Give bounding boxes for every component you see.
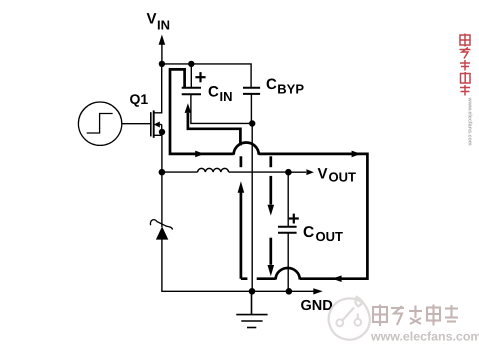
Q1 body arrowhead	[154, 122, 160, 128]
svg-text:V: V	[147, 11, 157, 28]
wire zener to ground rail	[162, 239, 314, 291]
D1 cathode squiggle	[150, 220, 172, 230]
current loop up arrowhead into CIN	[185, 103, 192, 113]
node ground tap	[249, 288, 256, 295]
wire COUT bottom lead	[287, 233, 289, 292]
svg-text:GND: GND	[301, 298, 333, 314]
current loop thick path (CIN branch, left side)	[170, 69, 234, 153]
inductor L1	[198, 168, 229, 172]
svg-text:C: C	[303, 224, 314, 241]
pulse source V1	[78, 102, 121, 145]
label CBYP	[266, 76, 304, 97]
wire top rail to CBYP	[162, 64, 251, 88]
wire drain rail	[154, 64, 162, 113]
node SW	[159, 169, 166, 176]
current loop left arrowhead bottom	[332, 275, 341, 282]
node CIN top	[188, 61, 194, 67]
watermark logo circle	[329, 297, 370, 340]
watermark chinese glyphs bottom	[373, 305, 458, 327]
label VIN	[147, 11, 171, 33]
svg-text:V: V	[318, 166, 328, 183]
COUT plus sign	[289, 214, 299, 224]
current loop hump over cap ground wire	[234, 143, 259, 155]
node VIN rail	[159, 61, 165, 67]
CIN plus sign	[195, 72, 205, 82]
ground symbol	[236, 291, 267, 327]
node COUT ground	[286, 288, 293, 295]
current loop right arrowhead 1	[195, 151, 204, 158]
wire VOUT stub	[288, 171, 306, 173]
wire COUT top lead	[287, 172, 289, 227]
current loop riser stub above VOUT line	[240, 156, 243, 167]
node caps ground junction	[249, 120, 255, 126]
current arrow down arrowhead 2	[268, 265, 275, 276]
label VOUT	[318, 166, 357, 185]
current loop thick path (top right, right side)	[259, 154, 368, 279]
wire SW to zener	[161, 172, 163, 227]
svg-text:www.elecfans.com: www.elecfans.com	[467, 97, 473, 146]
current loop hump over COUT wire	[276, 268, 300, 280]
transistor Q1	[151, 110, 162, 137]
wire caps to ground	[251, 124, 253, 292]
svg-text:www.elecfans.com: www.elecfans.com	[370, 330, 479, 344]
GND arrowhead	[313, 288, 322, 294]
svg-text:C: C	[266, 76, 277, 93]
capacitor CIN	[182, 88, 201, 95]
node VOUT	[285, 169, 292, 176]
node Q1 source	[159, 129, 165, 135]
wire VIN stem	[161, 44, 163, 64]
label CIN	[208, 84, 233, 105]
svg-text:C: C	[208, 84, 219, 101]
svg-text:Q1: Q1	[130, 91, 149, 107]
wire gate	[122, 123, 151, 125]
current arrow down arrowhead 1	[268, 205, 275, 216]
svg-text:OUT: OUT	[316, 229, 344, 244]
current arrow down segment 1	[269, 176, 272, 205]
current loop bottom segments with break	[241, 277, 276, 280]
VIN arrowhead	[159, 35, 166, 45]
svg-text:IN: IN	[157, 18, 170, 33]
diode D1 (zener)	[156, 226, 168, 239]
current loop riser upper segment to CIN	[188, 113, 241, 146]
wire SW line to inductor	[162, 171, 198, 173]
wire inductor to VOUT node	[229, 171, 289, 173]
svg-text:IN: IN	[220, 89, 233, 104]
label COUT	[303, 224, 343, 244]
wire rail Q1 source to SW node	[161, 132, 163, 172]
current loop right arrowhead 2	[352, 151, 361, 158]
capacitor COUT	[278, 227, 297, 233]
svg-text:OUT: OUT	[329, 170, 357, 185]
current loop up arrowhead	[238, 181, 245, 193]
VOUT arrowhead	[306, 169, 314, 175]
wire CIN top lead	[190, 64, 192, 88]
capacitor CBYP	[243, 88, 260, 94]
current arrow down segment 2	[269, 238, 272, 265]
wire CIN bottom lead	[191, 94, 252, 123]
watermark top right chinese glyphs	[460, 34, 471, 96]
wire CBYP bottom lead	[250, 94, 252, 124]
svg-text:BYP: BYP	[277, 82, 304, 97]
current loop left riser	[240, 193, 243, 279]
current arrow down branch stub	[269, 156, 272, 167]
